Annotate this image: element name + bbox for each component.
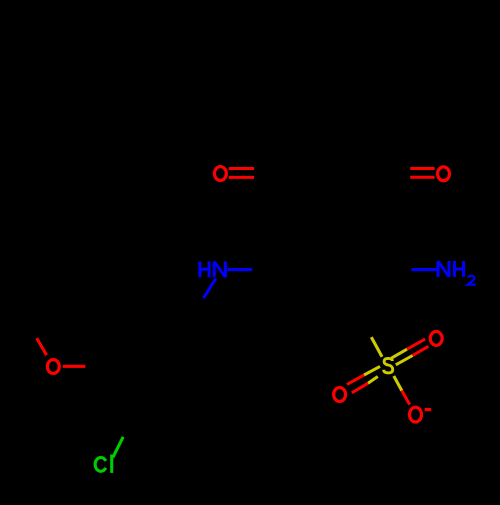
bond N1-C1 (blue half) <box>228 268 253 271</box>
atom O4 label (top right of S) <box>430 331 442 345</box>
bond S=O4 double upper-right: yellow halves <box>391 349 412 365</box>
atom N2 label NH2 <box>438 261 465 277</box>
bond C2-N2 (blue half) <box>412 268 437 271</box>
atom O6 anion label O- <box>410 407 432 422</box>
bond S=O5 double lower-left: yellow halves <box>364 366 380 383</box>
atom N2 subscript 2 <box>468 276 476 285</box>
atom O3 methoxy label <box>47 360 59 374</box>
bond O3-C3' aryl (red half) <box>63 365 86 368</box>
bond O3-CH3 (red half) <box>37 338 47 355</box>
bond S-O6 single: yellow half <box>394 376 402 391</box>
atom O1 carbonyl left label <box>214 167 226 181</box>
bond N1-C1' aryl (blue half) <box>204 279 216 299</box>
atom N1 label HN <box>198 261 225 277</box>
bond C10=O2 double (red halves) <box>410 169 434 178</box>
bond S=O5 double lower-left: red halves <box>347 375 368 393</box>
atom Cl label <box>95 455 112 473</box>
bond Cl-C4' aryl (green half) <box>113 437 123 458</box>
atom O2 carbonyl right label <box>438 167 450 181</box>
atom O5 label (lower left of S) <box>334 388 346 402</box>
atom S label <box>384 358 393 373</box>
bond C9=O1 double (red halves) <box>229 169 254 178</box>
bond S-O6 single: red half <box>402 391 410 405</box>
bond C3-S (yellow half) <box>371 337 382 357</box>
bond S=O4 double upper-right: red halves <box>407 339 428 355</box>
